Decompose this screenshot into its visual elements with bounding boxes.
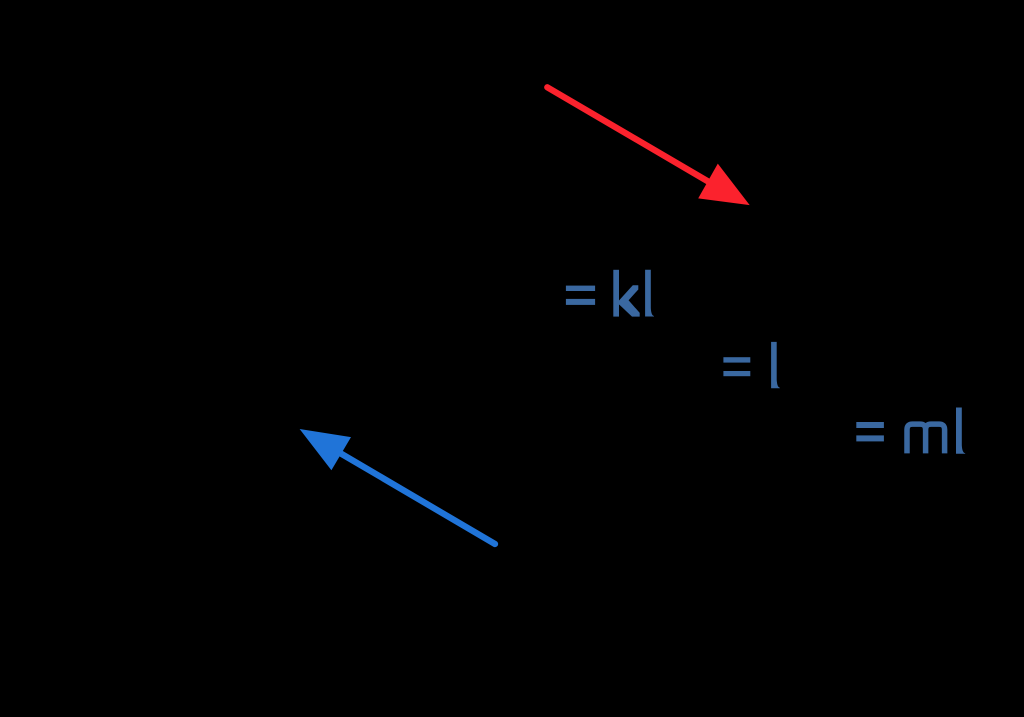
- letter m: [907, 424, 945, 453]
- letter l: [771, 342, 780, 388]
- blue arrow head: [300, 429, 351, 470]
- text "= l" : equals sign: [723, 342, 779, 388]
- letter k : arm: [619, 285, 638, 304]
- letter k : stem: [613, 270, 619, 317]
- blue arrow shaft: [340, 453, 495, 544]
- red arrow head: [698, 164, 750, 206]
- letter l of kl: [645, 270, 654, 317]
- letter k : leg: [619, 298, 640, 317]
- letter l of ml: [956, 408, 965, 454]
- text "= ml" : equals sign: [856, 422, 884, 441]
- text "= kl" : equals sign: [566, 270, 654, 317]
- red arrow shaft: [547, 87, 709, 182]
